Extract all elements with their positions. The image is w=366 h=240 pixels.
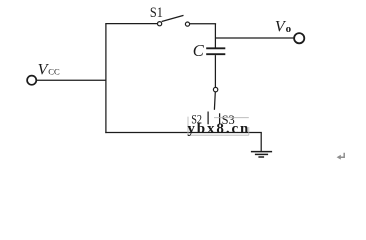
switch S1 right contact	[185, 22, 189, 26]
terminal Vcc	[27, 76, 36, 85]
svg-text:S1: S1	[150, 5, 163, 21]
svg-text:ybx8.cn: ybx8.cn	[187, 121, 250, 137]
wire top rail right of S1	[190, 23, 216, 25]
switch S2 lever	[213, 92, 216, 110]
watermark box	[188, 117, 249, 136]
wire down to ground	[260, 133, 262, 152]
wire bottom rail	[105, 132, 261, 134]
ground bar 1	[251, 151, 272, 153]
wire top rail left of S1	[105, 23, 157, 25]
wire capacitor to S2	[214, 55, 216, 87]
wire left vertical bus	[105, 24, 107, 134]
switch S3 fixed contact wire	[219, 113, 221, 124]
svg-text:C: C	[193, 41, 205, 60]
switch S1 left contact	[158, 22, 162, 26]
wire Vcc to bus	[37, 79, 107, 81]
switch S2 contact	[213, 87, 217, 91]
return mark	[337, 153, 345, 160]
switch S1 lever	[162, 15, 184, 21]
wire node to Vo	[215, 37, 294, 39]
svg-text:CC: CC	[48, 67, 60, 77]
svg-text:o: o	[286, 23, 292, 35]
wire down to capacitor	[214, 24, 216, 48]
ground bar 2	[255, 153, 268, 155]
terminal Vo	[294, 33, 304, 43]
switch S2 fixed contact wire	[207, 112, 209, 125]
capacitor C bottom plate	[206, 53, 225, 55]
capacitor C top plate	[206, 47, 225, 49]
ground bar 3	[258, 156, 264, 158]
